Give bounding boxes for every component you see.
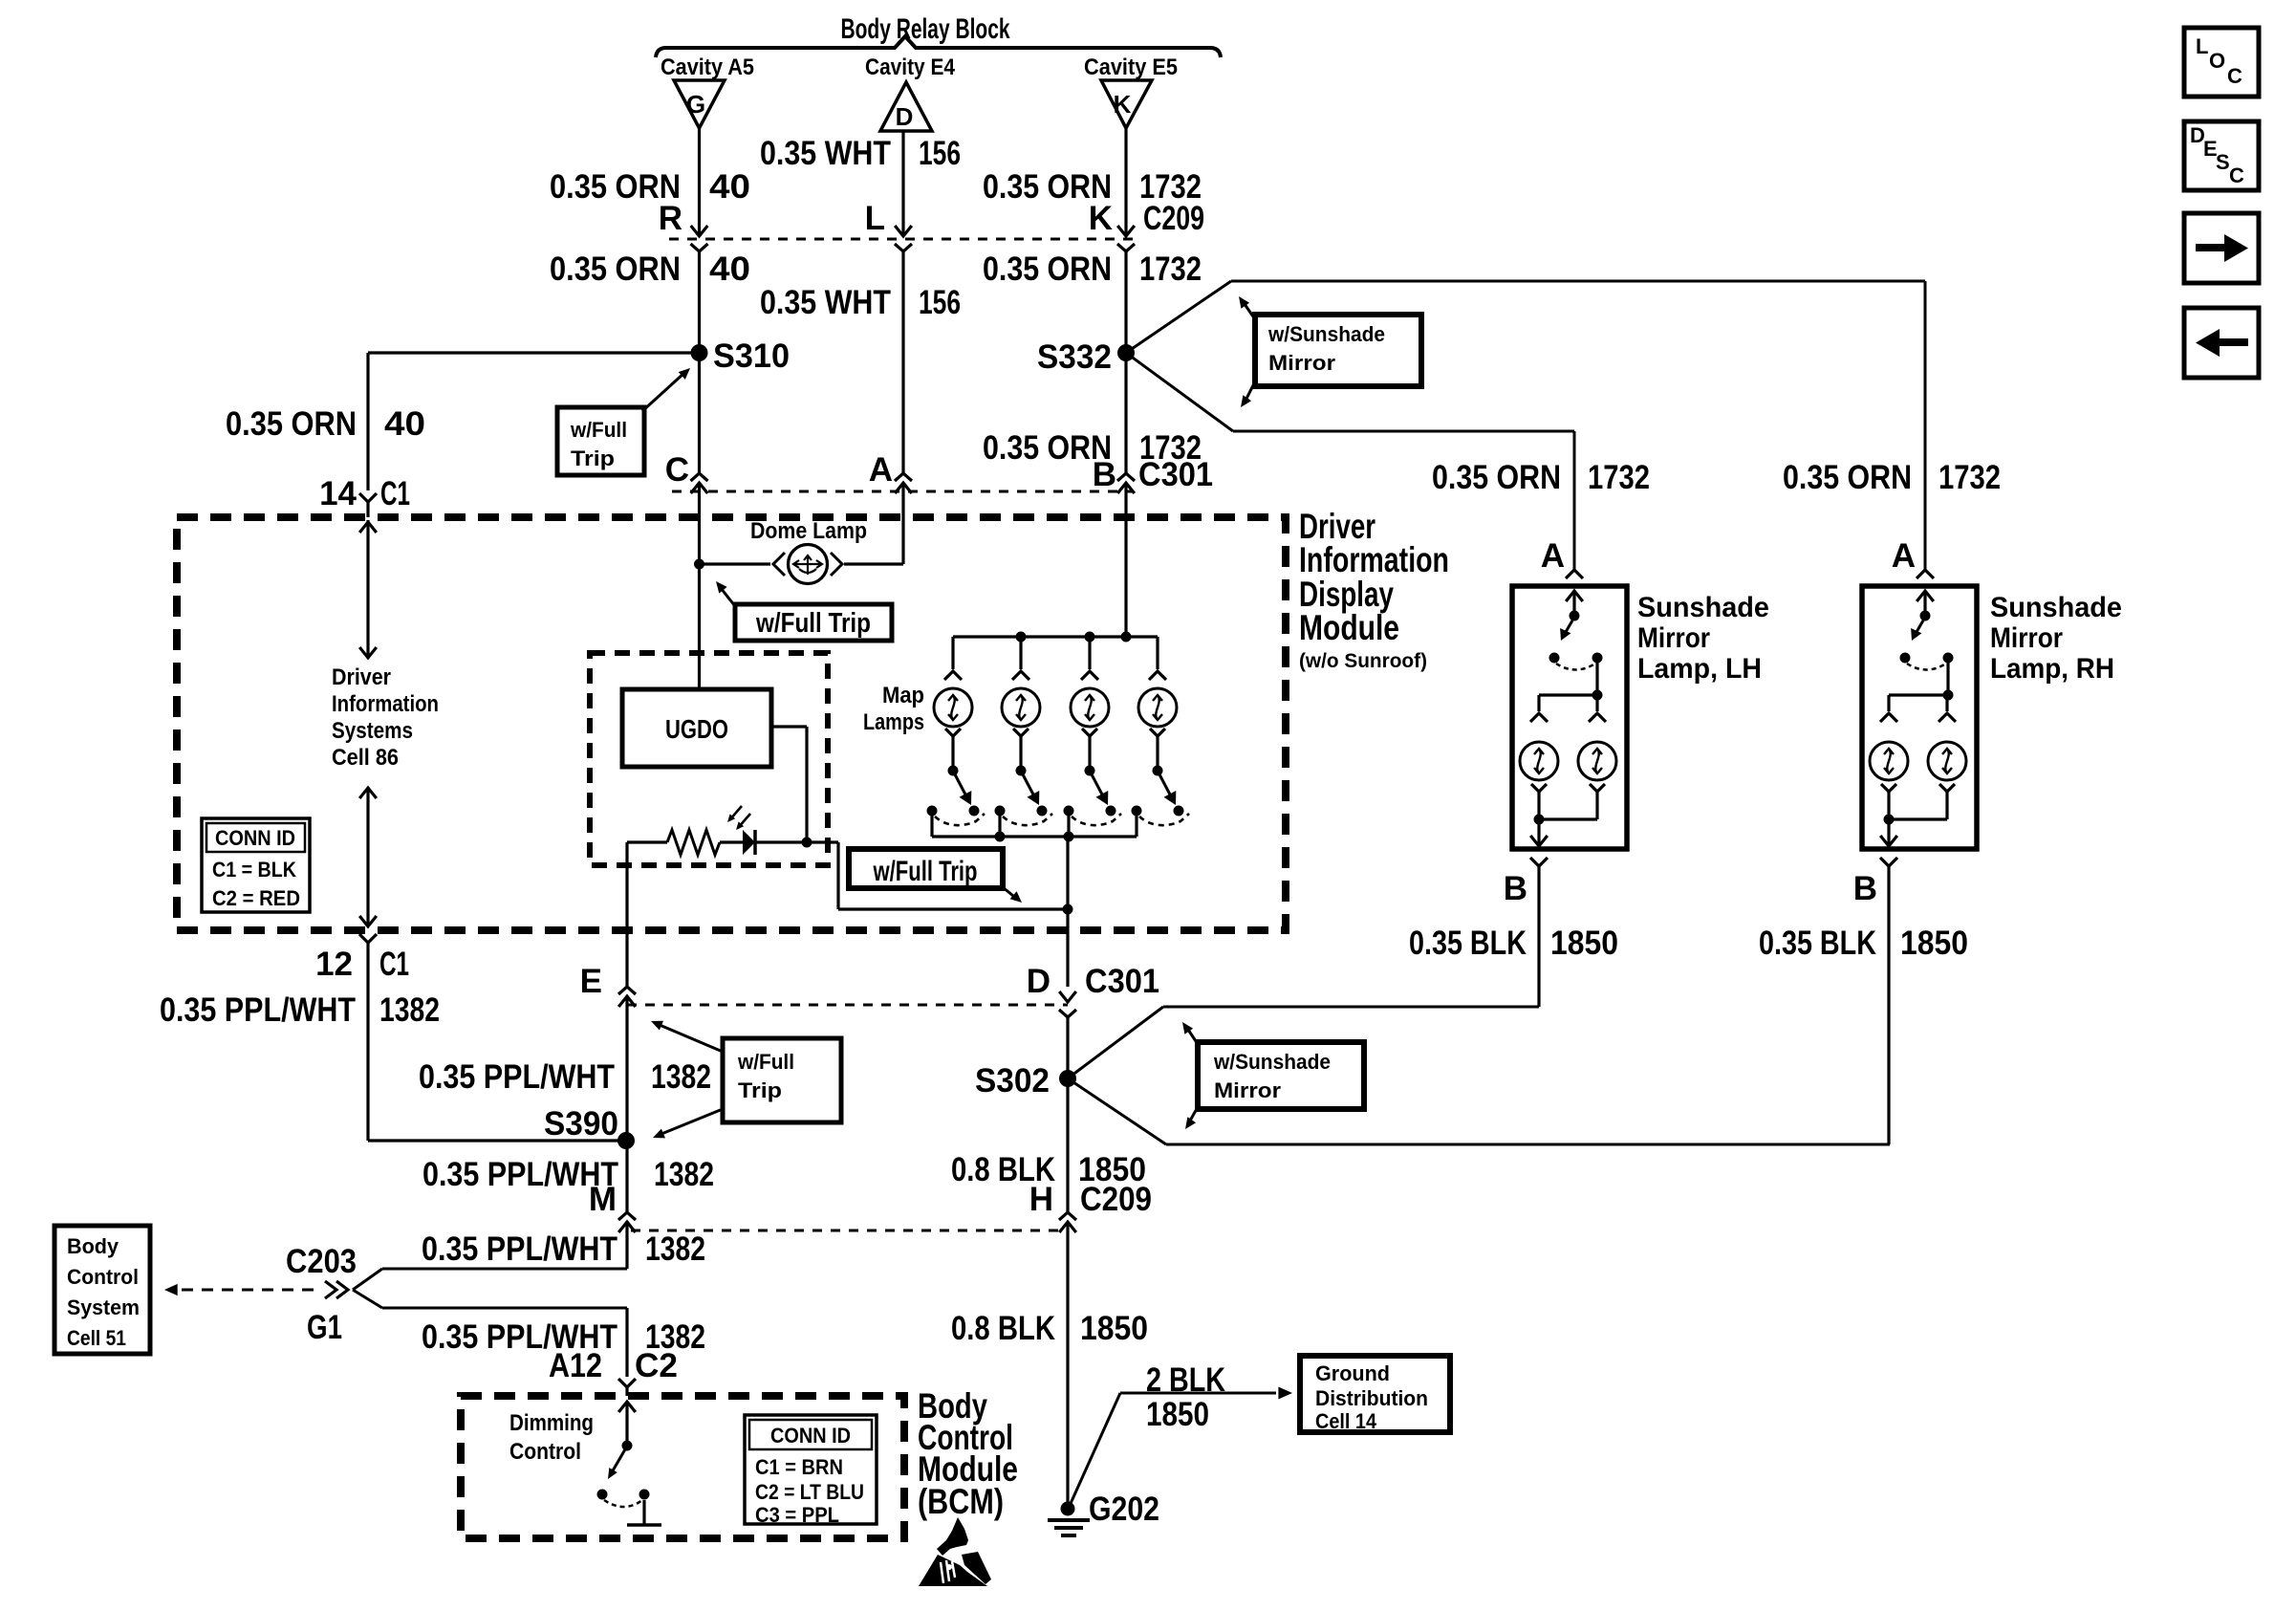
bulb 1 connector LH (1530, 713, 1548, 722)
svg-text:Dimming: Dimming (509, 1410, 594, 1436)
junction dot return main (1064, 832, 1074, 842)
svg-text:L: L (2196, 34, 2208, 58)
map lamp supply bus (953, 635, 1158, 638)
svg-text:C1: C1 (379, 946, 409, 983)
wire branch down to 14 C1 (366, 353, 369, 490)
wire S302 upper branch to LH lamp return (1068, 1007, 1163, 1078)
dome lamp bulb (789, 545, 828, 584)
svg-text:A: A (869, 451, 893, 489)
map lamp 2 drop wire (1019, 637, 1022, 669)
svg-text:C: C (665, 451, 689, 489)
map lamp 1 drop wire (951, 637, 954, 669)
svg-text:Mirror: Mirror (1637, 622, 1710, 654)
svg-text:C1 = BLK: C1 = BLK (212, 858, 296, 882)
svg-text:0.35 ORN: 0.35 ORN (550, 250, 681, 288)
svg-text:Lamps: Lamps (863, 709, 924, 735)
svg-text:L: L (865, 200, 885, 237)
svg-text:C2 = LT BLU: C2 = LT BLU (755, 1480, 864, 1504)
switch contacts LH (1549, 653, 1560, 664)
svg-text:M: M (589, 1181, 617, 1218)
svg-text:1850: 1850 (1078, 1151, 1146, 1188)
component box Body Control System (54, 1226, 150, 1354)
arrow from w/Full Trip 4 to S390 (661, 1109, 723, 1134)
map lamp 4 switch pivot (1153, 766, 1163, 776)
map lamp 4 inline connector (1149, 671, 1166, 680)
connector L at C209 (895, 226, 912, 236)
junction dot bus K wire (1121, 632, 1132, 642)
wire main return down from bus (1066, 837, 1069, 909)
svg-text:C2 = RED: C2 = RED (212, 886, 300, 910)
svg-text:40: 40 (709, 168, 750, 206)
connector B at C301 (1117, 473, 1135, 481)
connector C301 lower dashed line (627, 1004, 1068, 1007)
wire D below C209 down to dome lamp corner (901, 251, 904, 473)
svg-text:0.35 BLK: 0.35 BLK (1409, 925, 1527, 962)
bulb 1 LH (1520, 742, 1558, 780)
switch contacts RH (1900, 653, 1911, 664)
wire K E5 down to C209 (1124, 128, 1127, 236)
arrow from w/Full Trip 3 to junction (1003, 887, 1013, 896)
svg-text:Lamp, LH: Lamp, LH (1637, 653, 1762, 685)
dimming switch case ground (642, 1500, 645, 1525)
svg-text:1382: 1382 (645, 1230, 705, 1268)
bulb 2 RH (1928, 742, 1966, 780)
svg-text:156: 156 (919, 135, 961, 172)
map lamp 1 lower connector (945, 729, 961, 736)
svg-text:O: O (2209, 49, 2225, 73)
svg-text:Body: Body (67, 1234, 119, 1258)
svg-text:C301: C301 (1085, 963, 1159, 1000)
svg-text:Trip: Trip (571, 446, 615, 470)
wire UGDO right side down to LED node (771, 725, 807, 728)
switch wire LH (1566, 591, 1583, 601)
wire junction down to UGDO (698, 483, 701, 689)
svg-text:Dome Lamp: Dome Lamp (750, 518, 867, 544)
map lamp 4 switch contacts (1132, 806, 1142, 816)
map lamp 2 switch blade (1023, 774, 1033, 795)
map lamp 1 switch travel arc (935, 814, 985, 825)
component box Sunshade Mirror Lamp RH (1862, 586, 1977, 849)
svg-text:1732: 1732 (1939, 459, 2001, 496)
svg-text:1850: 1850 (1080, 1310, 1148, 1347)
connector C209 lower dashed line (631, 1230, 1063, 1232)
svg-text:Sunshade: Sunshade (1637, 592, 1769, 623)
connector triangle D (Cavity E4) (880, 82, 932, 131)
svg-text:System: System (67, 1295, 140, 1319)
wire S302 down to H connector (1066, 1078, 1069, 1212)
inline connector C203 chevrons (325, 1281, 336, 1298)
arrow from w/Sunshade Mirror 2 up-left (1188, 1030, 1198, 1044)
svg-text:1850: 1850 (1900, 925, 1968, 962)
svg-text:C: C (2229, 163, 2244, 187)
svg-text:40: 40 (384, 405, 425, 443)
svg-text:Map: Map (882, 683, 924, 708)
junction dot return RH (1884, 815, 1895, 825)
bulb 2 drop LH (1595, 699, 1598, 711)
wire E down to S390 (625, 996, 628, 1141)
connector C209 dashed line top (669, 238, 1136, 241)
svg-text:Information: Information (332, 691, 439, 717)
svg-text:Driver: Driver (332, 664, 391, 690)
svg-text:S390: S390 (544, 1105, 618, 1143)
svg-text:0.35 ORN: 0.35 ORN (983, 429, 1112, 467)
svg-text:D: D (896, 102, 914, 131)
connector C at C301 (691, 473, 708, 481)
splice S310 (691, 344, 708, 361)
connector C301 dashed line (672, 490, 1133, 493)
map lamp 2 inline connector (1012, 671, 1029, 680)
wire G below C209 to S310 (698, 251, 701, 353)
wire to Driver Information Systems upper segment (366, 520, 369, 658)
bulb 2 connector LH (1589, 713, 1606, 722)
resistor R dimming (667, 830, 720, 855)
map lamp 4 bulb (1138, 688, 1177, 727)
svg-text:D: D (1027, 963, 1051, 1000)
svg-text:CONN ID: CONN ID (215, 826, 295, 850)
callout box w/Full Trip 2 (735, 604, 892, 641)
wire C203 to A12 branch (353, 1290, 382, 1308)
svg-text:w/Full: w/Full (570, 418, 627, 442)
photodiode light arrows (729, 806, 742, 820)
wire E branch corner down (625, 842, 628, 987)
map lamp 4 drop wire (1156, 637, 1159, 669)
ESD warning symbol (937, 1517, 968, 1556)
legend box prev-page arrow (2184, 308, 2259, 378)
svg-text:0.35 ORN: 0.35 ORN (1783, 459, 1912, 496)
bulb 2 drop RH (1945, 699, 1948, 711)
svg-text:B: B (1504, 870, 1527, 907)
map lamp 3 drop wire (1088, 637, 1091, 669)
svg-text:Cell 14: Cell 14 (1315, 1409, 1377, 1433)
wire 12C1 branch horizontal to S390 (368, 1139, 626, 1142)
svg-text:1732: 1732 (1139, 250, 1202, 288)
wire K below S332 to B connector (1124, 353, 1127, 473)
svg-text:CONN ID: CONN ID (770, 1424, 851, 1448)
connector A at C301 (895, 473, 912, 481)
map lamp 2 bulb (1002, 688, 1040, 727)
wire D E4 down to C209 (901, 131, 904, 236)
svg-text:0.35 WHT: 0.35 WHT (760, 135, 891, 172)
svg-text:A: A (1541, 537, 1565, 575)
svg-text:Mirror: Mirror (1990, 622, 2063, 654)
legend box LOC (2184, 28, 2259, 97)
wire G down to C connector (698, 353, 701, 473)
switch travel arc LH (1556, 664, 1595, 670)
callout box w/Sunshade Mirror 2 (1198, 1042, 1364, 1109)
map lamp 3 bulb (1071, 688, 1109, 727)
map lamp 2 switch contacts (995, 806, 1006, 816)
wire K down into map lamp bus (1124, 483, 1127, 637)
svg-text:C209: C209 (1143, 200, 1204, 237)
LED diode (743, 830, 755, 855)
component box UGDO (622, 689, 771, 767)
svg-text:0.35 BLK: 0.35 BLK (1759, 925, 1876, 962)
switch travel arc RH (1907, 664, 1946, 670)
svg-text:C2: C2 (635, 1347, 678, 1384)
wire S332 lower branch diagonal to LH lamp feed (1126, 353, 1233, 431)
connector B at RH lamp (1880, 858, 1897, 866)
dimming switch contacts (597, 1490, 608, 1500)
component box Ground Distribution (1300, 1356, 1450, 1432)
junction dot return LH (1534, 815, 1545, 825)
map lamp 3 switch travel arc (1072, 814, 1121, 825)
svg-text:UGDO: UGDO (665, 714, 728, 744)
svg-text:K: K (1114, 90, 1132, 119)
svg-text:Body Relay Block: Body Relay Block (841, 13, 1010, 45)
svg-text:0.35 ORN: 0.35 ORN (1432, 459, 1561, 496)
wire K below C209 to S332 (1124, 251, 1127, 353)
junction dot return lamp2 (995, 832, 1006, 842)
map lamp 3 switch blade (1092, 774, 1102, 795)
svg-text:S302: S302 (975, 1062, 1050, 1099)
bulb 1 lower connector RH (1881, 784, 1896, 792)
svg-text:14: 14 (319, 475, 357, 512)
dashed wire to Body Control System (182, 1289, 319, 1292)
bulb 2 lower connector LH (1590, 784, 1605, 792)
svg-text:w/Full Trip: w/Full Trip (873, 856, 978, 887)
svg-text:C203: C203 (286, 1243, 357, 1280)
wire 2 BLK to Ground Distribution (1069, 1393, 1120, 1508)
wire to Driver Information Systems lower segment (366, 788, 369, 926)
svg-text:Cavity A5: Cavity A5 (661, 54, 754, 80)
svg-text:0.8 BLK: 0.8 BLK (951, 1151, 1055, 1188)
map lamp 4 return drop (1135, 811, 1137, 837)
bulb 2 connector RH (1939, 713, 1956, 722)
dashed box Dimming Control BCM (461, 1396, 904, 1538)
junction dot bus lamp2 (1016, 632, 1027, 642)
splice S390 (617, 1132, 635, 1149)
svg-text:C: C (2227, 64, 2242, 88)
svg-text:0.35 WHT: 0.35 WHT (760, 284, 891, 321)
dome lamp connector right chevron (831, 553, 842, 576)
wire contact down RH (1946, 658, 1949, 695)
map lamp 4 lower connector (1150, 729, 1165, 736)
svg-text:0.35 PPL/WHT: 0.35 PPL/WHT (419, 1058, 615, 1096)
svg-text:1850: 1850 (1550, 925, 1618, 962)
map lamp 1 switch blade (955, 774, 965, 795)
svg-text:0.35 ORN: 0.35 ORN (983, 250, 1112, 288)
svg-text:B: B (1853, 870, 1877, 907)
connector H at C209 (1059, 1212, 1076, 1220)
svg-text:C1 = BRN: C1 = BRN (755, 1455, 843, 1479)
arrow from w/Full Trip 1 to S310 (642, 373, 684, 411)
arrow from w/Full Trip 2 to dome wire (721, 588, 735, 606)
map lamp 2 switch travel arc (1003, 814, 1052, 825)
callout box w/Full Trip 1 (557, 407, 644, 475)
switch blade LH (1566, 620, 1572, 632)
junction dot bus lamp3 (1085, 632, 1095, 642)
svg-text:Cavity E4: Cavity E4 (865, 54, 956, 80)
switch pivot RH (1920, 611, 1931, 621)
callout box w/Sunshade Mirror 1 (1255, 315, 1421, 386)
svg-text:S310: S310 (713, 337, 790, 375)
wire resistor-LED horizontal (627, 840, 667, 843)
map lamp 3 switch pivot (1085, 766, 1095, 776)
svg-text:G202: G202 (1089, 1491, 1159, 1528)
svg-text:0.35 PPL/WHT: 0.35 PPL/WHT (160, 991, 356, 1029)
bulb 2 lower connector RH (1939, 784, 1955, 792)
connector D at C301 (1059, 991, 1076, 1002)
junction dot lamp feed RH (1943, 690, 1954, 701)
arrow from w/Sunshade Mirror 1 up-left (1245, 304, 1255, 319)
wire S302 lower branch to RH lamp return (1068, 1078, 1166, 1144)
svg-text:Mirror: Mirror (1268, 351, 1335, 375)
dimming switch pivot (622, 1441, 633, 1451)
svg-text:40: 40 (709, 250, 750, 288)
wire contact down LH (1595, 658, 1598, 695)
splice S332 (1117, 344, 1135, 361)
svg-text:1382: 1382 (654, 1156, 714, 1193)
svg-text:w/Sunshade: w/Sunshade (1267, 322, 1385, 346)
switch blade RH (1917, 620, 1923, 632)
splice S302 (1059, 1070, 1076, 1087)
svg-text:E: E (580, 963, 602, 1000)
connector M at C209 (618, 1212, 636, 1220)
svg-text:1382: 1382 (651, 1058, 711, 1096)
svg-text:1732: 1732 (1139, 429, 1202, 467)
connector K at C209 (1117, 226, 1135, 236)
arrow from w/Sunshade Mirror 1 down-left (1246, 381, 1255, 399)
wire S390 down to M (625, 1141, 628, 1212)
connector B at LH lamp (1530, 858, 1548, 866)
bulb 1 RH (1870, 742, 1908, 780)
svg-text:Cell 86: Cell 86 (332, 745, 399, 771)
dashed box UGDO module (590, 653, 828, 865)
svg-text:Information: Information (1299, 540, 1449, 579)
wire A12 inside BCM (618, 1402, 636, 1412)
wire return down LH (1537, 819, 1540, 844)
map lamp 2 lower connector (1013, 729, 1029, 736)
junction dot dome lamp branch (694, 559, 704, 570)
svg-text:Control: Control (509, 1439, 581, 1465)
connector A12 C2 at BCM boundary (618, 1379, 636, 1387)
svg-text:C1: C1 (380, 475, 410, 512)
svg-text:1850: 1850 (1146, 1396, 1209, 1433)
map lamp 1 switch pivot (948, 766, 959, 776)
wire dome lamp left lead (700, 562, 771, 565)
svg-text:G: G (686, 90, 705, 119)
map lamp 2 switch pivot (1016, 766, 1027, 776)
svg-text:w/Full Trip: w/Full Trip (755, 608, 871, 639)
connector triangle G (Cavity A5) (674, 80, 725, 128)
wire D down to S302 (1066, 1017, 1069, 1078)
map lamp 3 inline connector (1081, 671, 1098, 680)
connector 12 C1 below DIS box (359, 934, 377, 943)
junction dot lamp feed LH (1592, 690, 1603, 701)
wire S332 upper branch diagonal to RH lamp feed (1126, 281, 1231, 353)
wire G A5 down to C209 (698, 128, 701, 236)
switch pivot LH (1570, 611, 1580, 621)
lamp feed bus RH (1889, 693, 1948, 696)
dimming switch travel arc (604, 1500, 642, 1507)
map lamp 4 switch travel arc (1139, 814, 1189, 825)
map lamp 3 return drop (1067, 811, 1070, 837)
svg-text:Mirror: Mirror (1214, 1078, 1281, 1102)
component box Sunshade Mirror Lamp LH (1512, 586, 1627, 849)
map lamp 2 return drop (998, 811, 1001, 837)
bulb 2 LH (1578, 742, 1616, 780)
callout box w/Full Trip 3 (849, 849, 1003, 888)
map lamp return bus (932, 835, 1137, 838)
bulb 1 connector RH (1880, 713, 1897, 722)
svg-text:Sunshade: Sunshade (1990, 592, 2122, 623)
wire LED node to map lamp return (807, 840, 838, 843)
svg-text:Systems: Systems (332, 718, 413, 744)
svg-text:0.8 BLK: 0.8 BLK (951, 1310, 1055, 1347)
return bus RH (1889, 817, 1947, 820)
wire H down to G202 (1066, 1222, 1069, 1509)
svg-text:12: 12 (315, 946, 353, 983)
map lamp 3 switch contacts (1064, 806, 1074, 816)
legend box CONN ID 2 (745, 1415, 877, 1524)
svg-text:A: A (1892, 537, 1916, 575)
svg-text:Control: Control (67, 1265, 139, 1289)
svg-text:w/Full: w/Full (737, 1050, 794, 1074)
ground G202 symbol (1061, 1502, 1075, 1516)
svg-text:1382: 1382 (379, 991, 440, 1029)
wire S310 branch left horizontal (368, 351, 700, 354)
svg-text:0.35 ORN: 0.35 ORN (226, 405, 357, 443)
svg-text:Distribution: Distribution (1315, 1386, 1428, 1410)
map lamp 1 bulb (934, 688, 972, 727)
svg-text:0.35 PPL/WHT: 0.35 PPL/WHT (422, 1230, 617, 1268)
svg-text:(BCM): (BCM) (918, 1482, 1004, 1521)
svg-text:w/Sunshade: w/Sunshade (1213, 1050, 1331, 1074)
svg-text:Module: Module (1299, 608, 1399, 647)
lamp feed bus LH (1539, 693, 1597, 696)
dome lamp connector left chevron (773, 553, 785, 576)
map lamp 1 switch contacts (927, 806, 938, 816)
wire return down RH (1887, 819, 1890, 844)
bulb 1 lower connector LH (1531, 784, 1547, 792)
svg-text:S332: S332 (1037, 338, 1112, 376)
map lamp 3 lower connector (1082, 729, 1097, 736)
arrow from w/Full Trip 4 to E connector (660, 1025, 723, 1052)
svg-text:Trip: Trip (738, 1078, 782, 1102)
svg-text:R: R (659, 200, 682, 237)
svg-text:(w/o Sunroof): (w/o Sunroof) (1299, 650, 1427, 672)
svg-text:C3 = PPL: C3 = PPL (755, 1503, 839, 1527)
svg-text:Lamp, RH: Lamp, RH (1990, 653, 2114, 685)
wire main down to D connector (1066, 909, 1069, 987)
connector R at C209 (691, 226, 708, 236)
connector A at RH lamp (1917, 570, 1934, 578)
connector triangle K (Cavity E5) (1101, 80, 1152, 128)
connector E at C301 (618, 987, 636, 994)
legend box DESC (2184, 121, 2259, 190)
callout box w/Full Trip 4 (723, 1038, 841, 1122)
map lamp 1 return drop (930, 811, 933, 837)
svg-text:S: S (2216, 150, 2230, 174)
dimming switch blade (612, 1449, 625, 1472)
svg-text:Cell 51: Cell 51 (67, 1326, 126, 1350)
brace Body Relay Block (656, 36, 1221, 57)
junction dot main return and LED branch (1063, 904, 1073, 915)
svg-text:Ground: Ground (1315, 1361, 1390, 1385)
map lamp 4 switch blade (1159, 774, 1170, 795)
dashed box Driver Information Display Module (177, 517, 1286, 930)
svg-text:K: K (1089, 200, 1113, 237)
svg-text:A12: A12 (549, 1347, 602, 1384)
arrow from w/Sunshade Mirror 2 down-left (1190, 1107, 1198, 1121)
svg-text:G1: G1 (307, 1309, 342, 1346)
map lamp 1 inline connector (944, 671, 962, 680)
connector A at LH lamp (1566, 570, 1583, 578)
junction dot LED output (802, 838, 812, 848)
return bus LH (1539, 817, 1597, 820)
svg-text:Cavity E5: Cavity E5 (1084, 54, 1178, 80)
legend box CONN ID 1 (202, 818, 310, 912)
